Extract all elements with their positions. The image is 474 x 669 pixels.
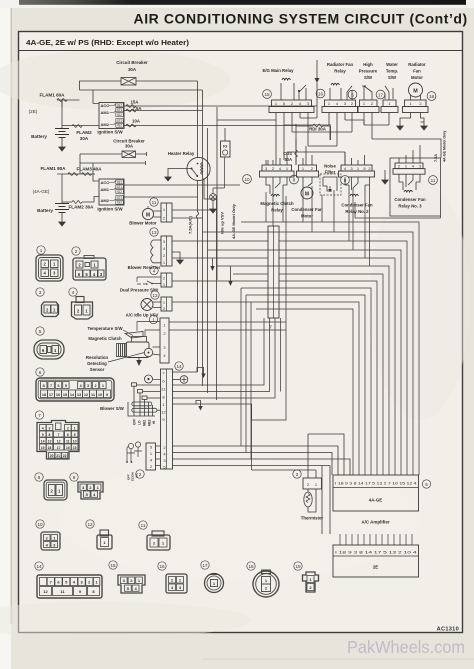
svg-text:Resolution: Resolution bbox=[86, 355, 109, 360]
svg-text:I 18 9 3 8 14 17 5 13 2 10: I 18 9 3 8 14 17 5 13 2 10 4 bbox=[335, 551, 417, 555]
svg-text:4A-GE: 4A-GE bbox=[369, 498, 382, 503]
svg-text:8: 8 bbox=[43, 384, 45, 388]
svg-text:19: 19 bbox=[41, 446, 45, 450]
svg-text:Pressure: Pressure bbox=[359, 69, 378, 74]
svg-text:AM2: AM2 bbox=[101, 198, 110, 203]
svg-text:1: 1 bbox=[102, 384, 104, 388]
svg-text:4: 4 bbox=[72, 290, 75, 295]
svg-text:14: 14 bbox=[41, 439, 45, 443]
svg-text:Temp.: Temp. bbox=[386, 69, 398, 74]
svg-text:7: 7 bbox=[38, 413, 41, 418]
svg-text:IG2: IG2 bbox=[117, 124, 122, 128]
svg-text:AM1: AM1 bbox=[101, 110, 110, 115]
svg-text:FLAM2 30A: FLAM2 30A bbox=[68, 205, 94, 210]
svg-text:13: 13 bbox=[151, 230, 157, 235]
svg-text:2: 2 bbox=[94, 384, 96, 388]
svg-text:12: 12 bbox=[57, 439, 61, 443]
svg-text:Heater Relay: Heater Relay bbox=[168, 151, 195, 156]
svg-text:5: 5 bbox=[65, 384, 67, 388]
svg-text:7.5A: 7.5A bbox=[434, 154, 438, 162]
svg-text:Circuit Breaker: Circuit Breaker bbox=[116, 60, 148, 65]
svg-text:Blower Resistor: Blower Resistor bbox=[128, 265, 161, 270]
svg-text:10A: 10A bbox=[132, 119, 140, 124]
svg-text:Dual Pressure S/W: Dual Pressure S/W bbox=[120, 288, 159, 293]
svg-text:ST1: ST1 bbox=[117, 108, 123, 112]
svg-text:18: 18 bbox=[429, 94, 435, 99]
svg-text:Radiator Fan: Radiator Fan bbox=[327, 62, 354, 67]
svg-text:10: 10 bbox=[37, 522, 43, 527]
svg-text:16: 16 bbox=[318, 91, 324, 96]
svg-text:PakWheels.com: PakWheels.com bbox=[347, 637, 465, 657]
svg-text:15: 15 bbox=[63, 393, 67, 397]
svg-text:6: 6 bbox=[39, 370, 42, 375]
svg-text:20: 20 bbox=[50, 454, 54, 458]
svg-text:16: 16 bbox=[66, 446, 70, 450]
svg-text:ST2: ST2 bbox=[117, 196, 123, 200]
svg-text:7.5A: 7.5A bbox=[133, 106, 142, 111]
svg-text:7: 7 bbox=[58, 433, 60, 437]
svg-text:Relay: Relay bbox=[334, 69, 346, 74]
svg-text:15: 15 bbox=[73, 446, 77, 450]
svg-text:(4A-GE): (4A-GE) bbox=[33, 189, 50, 194]
svg-text:10: 10 bbox=[244, 177, 250, 182]
svg-text:4A-GE, 2E w/ PS (RHD: Except w: 4A-GE, 2E w/ PS (RHD: Except w/o Heater) bbox=[26, 38, 190, 47]
svg-text:2: 2 bbox=[67, 426, 69, 430]
svg-text:11: 11 bbox=[152, 200, 157, 205]
svg-text:9: 9 bbox=[42, 433, 44, 437]
svg-text:FLAM1 80A: FLAM1 80A bbox=[40, 166, 66, 171]
svg-text:30A: 30A bbox=[128, 67, 137, 72]
svg-text:(2E): (2E) bbox=[29, 109, 38, 114]
svg-text:Ignition S/W: Ignition S/W bbox=[97, 207, 123, 212]
svg-text:11: 11 bbox=[431, 178, 436, 183]
svg-text:HI: HI bbox=[152, 421, 156, 424]
svg-text:15: 15 bbox=[110, 563, 116, 568]
svg-text:13: 13 bbox=[48, 439, 52, 443]
svg-text:Thermistor: Thermistor bbox=[301, 516, 324, 521]
svg-text:6: 6 bbox=[67, 433, 69, 437]
svg-text:17: 17 bbox=[49, 393, 53, 397]
svg-text:11: 11 bbox=[66, 439, 70, 443]
svg-text:1: 1 bbox=[74, 426, 76, 430]
svg-text:ST2: ST2 bbox=[117, 119, 123, 123]
svg-text:M: M bbox=[146, 212, 150, 218]
svg-text:I 18 9 3 8 14 17 5 13 2 7 10: I 18 9 3 8 14 17 5 13 2 7 10 15 12 4 bbox=[335, 482, 417, 486]
svg-text:Idle up VSV: Idle up VSV bbox=[220, 212, 225, 234]
svg-text:8: 8 bbox=[293, 177, 296, 182]
svg-text:Condenser Fan: Condenser Fan bbox=[341, 203, 373, 208]
svg-text:30A: 30A bbox=[284, 157, 292, 162]
svg-text:22: 22 bbox=[63, 454, 67, 458]
svg-text:S/W: S/W bbox=[388, 75, 397, 80]
svg-text:14: 14 bbox=[176, 364, 182, 369]
svg-text:13: 13 bbox=[77, 393, 81, 397]
svg-text:19: 19 bbox=[295, 564, 301, 569]
svg-text:15A: 15A bbox=[131, 100, 139, 105]
svg-text:18: 18 bbox=[248, 564, 254, 569]
svg-text:6: 6 bbox=[57, 384, 59, 388]
svg-text:FLAM2: FLAM2 bbox=[76, 130, 92, 135]
svg-text:AM2: AM2 bbox=[101, 122, 110, 127]
svg-text:RDI 30A: RDI 30A bbox=[309, 127, 327, 132]
svg-text:5: 5 bbox=[39, 329, 42, 334]
svg-text:3: 3 bbox=[87, 384, 89, 388]
svg-text:2: 2 bbox=[139, 472, 142, 477]
svg-text:4: 4 bbox=[153, 268, 156, 273]
svg-text:16: 16 bbox=[56, 393, 60, 397]
svg-text:9: 9 bbox=[73, 475, 76, 480]
svg-text:AC1310: AC1310 bbox=[437, 627, 459, 633]
svg-text:30A: 30A bbox=[80, 136, 89, 141]
svg-text:Sensor: Sensor bbox=[90, 367, 105, 372]
svg-text:2E: 2E bbox=[373, 565, 378, 570]
svg-text:17: 17 bbox=[57, 446, 61, 450]
svg-text:Blower S/W: Blower S/W bbox=[100, 406, 125, 411]
svg-text:11: 11 bbox=[141, 523, 146, 528]
svg-text:ACC: ACC bbox=[101, 180, 110, 185]
svg-text:3: 3 bbox=[296, 472, 299, 477]
svg-text:21: 21 bbox=[56, 454, 60, 458]
svg-text:18: 18 bbox=[42, 393, 46, 397]
svg-text:18: 18 bbox=[48, 446, 52, 450]
svg-text:12: 12 bbox=[161, 410, 166, 415]
svg-text:12: 12 bbox=[84, 393, 88, 397]
svg-text:7: 7 bbox=[50, 384, 52, 388]
svg-text:Water: Water bbox=[386, 62, 398, 67]
svg-text:IG2: IG2 bbox=[117, 113, 122, 117]
svg-text:17: 17 bbox=[378, 92, 384, 97]
svg-text:2: 2 bbox=[75, 249, 78, 254]
svg-text:3: 3 bbox=[49, 426, 51, 430]
svg-text:11: 11 bbox=[91, 393, 95, 397]
svg-text:ME2: ME2 bbox=[148, 419, 152, 426]
svg-text:10: 10 bbox=[73, 439, 77, 443]
svg-text:FLAM3 40A: FLAM3 40A bbox=[76, 167, 102, 172]
svg-text:8: 8 bbox=[49, 433, 51, 437]
svg-text:9: 9 bbox=[106, 393, 108, 397]
svg-text:12: 12 bbox=[87, 522, 93, 527]
svg-text:LO: LO bbox=[138, 420, 142, 425]
svg-text:Condenser Fan: Condenser Fan bbox=[291, 207, 323, 212]
svg-text:AM1: AM1 bbox=[101, 187, 110, 192]
svg-text:17: 17 bbox=[202, 563, 208, 568]
svg-text:1: 1 bbox=[40, 248, 43, 253]
svg-text:Fan: Fan bbox=[413, 69, 421, 74]
svg-text:ST1: ST1 bbox=[117, 185, 123, 189]
svg-text:Magnetic Clutch: Magnetic Clutch bbox=[260, 201, 294, 206]
svg-text:16: 16 bbox=[159, 564, 165, 569]
svg-text:Ignition S/W: Ignition S/W bbox=[97, 130, 123, 135]
svg-text:4A-GE Model Only: 4A-GE Model Only bbox=[443, 131, 447, 162]
svg-text:ACC: ACC bbox=[101, 103, 110, 108]
svg-text:IG: IG bbox=[223, 144, 227, 149]
svg-text:Condenser Fan: Condenser Fan bbox=[394, 197, 426, 202]
svg-text:AIR CONDITIONING SYSTEM CIRCUI: AIR CONDITIONING SYSTEM CIRCUIT (Cont’d) bbox=[134, 11, 468, 27]
svg-text:Relay No. 3: Relay No. 3 bbox=[398, 204, 422, 209]
svg-text:8: 8 bbox=[38, 475, 41, 480]
svg-text:FLAM1 60A: FLAM1 60A bbox=[39, 93, 65, 98]
svg-text:OFF: OFF bbox=[133, 419, 137, 425]
svg-text:4: 4 bbox=[42, 426, 44, 430]
svg-text:A/C: A/C bbox=[135, 472, 139, 478]
svg-text:IG1: IG1 bbox=[117, 180, 122, 184]
svg-text:Temperature S/W: Temperature S/W bbox=[87, 326, 123, 331]
svg-text:10: 10 bbox=[98, 393, 102, 397]
svg-text:Battery: Battery bbox=[31, 134, 47, 139]
svg-text:A/C Amplifier: A/C Amplifier bbox=[361, 520, 390, 525]
svg-text:Magnetic Clutch: Magnetic Clutch bbox=[88, 336, 122, 341]
svg-text:30A: 30A bbox=[125, 144, 134, 149]
svg-text:12: 12 bbox=[43, 589, 48, 594]
svg-text:ME1: ME1 bbox=[143, 419, 147, 426]
svg-text:E/G Main Relay: E/G Main Relay bbox=[262, 68, 294, 73]
svg-text:6: 6 bbox=[425, 482, 428, 487]
svg-text:3: 3 bbox=[39, 290, 42, 295]
svg-text:Detecting: Detecting bbox=[87, 361, 107, 366]
svg-text:Motor: Motor bbox=[411, 75, 423, 80]
svg-text:4A-GE Model Only: 4A-GE Model Only bbox=[231, 203, 236, 239]
svg-text:High: High bbox=[363, 62, 373, 67]
svg-text:12: 12 bbox=[152, 293, 158, 298]
svg-text:5: 5 bbox=[74, 433, 76, 437]
svg-text:14: 14 bbox=[36, 564, 42, 569]
svg-text:IG2: IG2 bbox=[117, 190, 122, 194]
svg-text:5: 5 bbox=[351, 92, 354, 97]
svg-text:IG1: IG1 bbox=[117, 103, 122, 107]
svg-text:Battery: Battery bbox=[37, 208, 53, 213]
svg-text:IG2: IG2 bbox=[117, 201, 122, 205]
svg-text:S/W: S/W bbox=[364, 75, 373, 80]
svg-text:M: M bbox=[305, 192, 309, 198]
svg-text:Radiator: Radiator bbox=[408, 62, 426, 67]
svg-text:Blower Motor: Blower Motor bbox=[129, 221, 157, 226]
svg-text:Noise: Noise bbox=[324, 164, 336, 169]
svg-text:15: 15 bbox=[264, 92, 270, 97]
svg-text:M: M bbox=[413, 89, 418, 95]
